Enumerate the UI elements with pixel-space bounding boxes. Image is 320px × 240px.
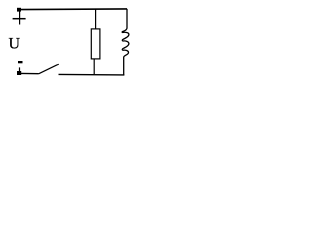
svg-text:U: U: [9, 36, 21, 53]
